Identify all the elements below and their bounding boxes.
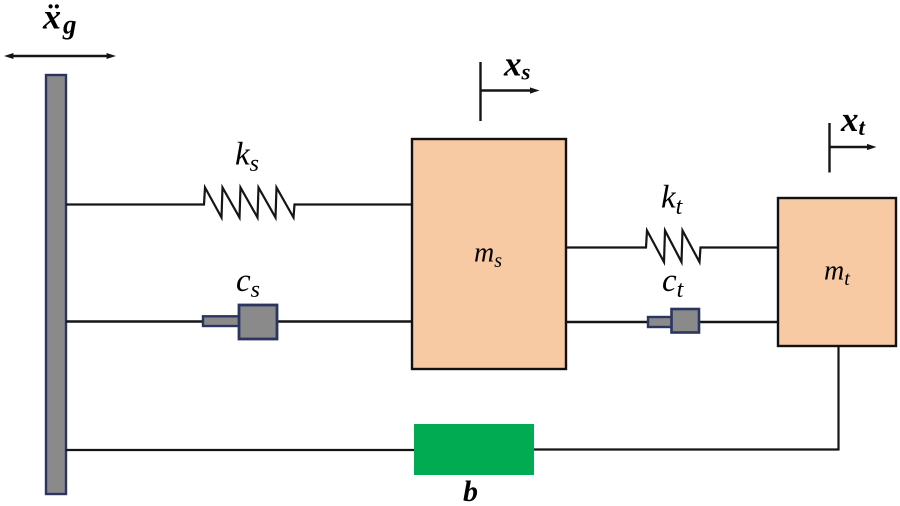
svg-text:xt: xt	[840, 100, 866, 140]
svg-text:b: b	[463, 475, 478, 506]
svg-text:cs: cs	[236, 263, 260, 303]
svg-text:xs: xs	[503, 45, 531, 85]
svg-text:kt: kt	[661, 180, 684, 221]
svg-text:ks: ks	[235, 137, 259, 178]
svg-text:ẍg: ẍg	[42, 0, 77, 40]
svg-text:ct: ct	[662, 263, 685, 303]
